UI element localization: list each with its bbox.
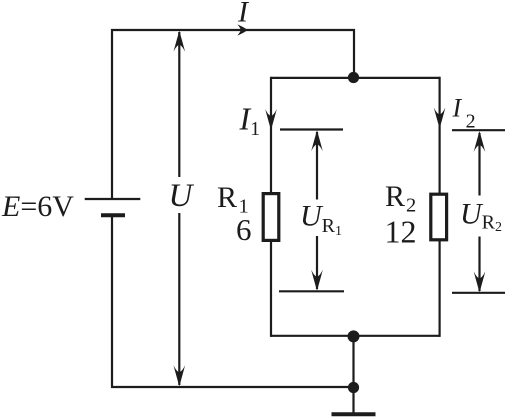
svg-text:R2: R2 xyxy=(385,180,416,217)
wire right branch upper xyxy=(439,77,441,193)
wire node B to node C xyxy=(352,336,354,388)
arrowhead I1 down xyxy=(265,109,277,130)
arrow UR1 shaft xyxy=(316,132,318,289)
wire top loop: left riser, top wire, drop to node A xyxy=(112,30,354,199)
arrow U shaft upper xyxy=(178,32,180,177)
tick line UR1 top xyxy=(280,128,343,130)
battery E bottom plate (short thick) xyxy=(101,213,125,217)
wire right branch lower xyxy=(439,241,441,337)
wire parallel-section bottom rail xyxy=(271,335,440,337)
tick line UR2 bottom xyxy=(452,292,505,294)
wire left branch lower xyxy=(270,242,272,337)
arrowhead UR1 up xyxy=(311,130,323,151)
arrowhead current I (rightward on top wire) xyxy=(237,24,248,35)
node C junction dot xyxy=(348,382,359,393)
arrowhead UR2 down xyxy=(474,271,486,292)
svg-text:I: I xyxy=(237,0,250,29)
svg-text:UR1: UR1 xyxy=(300,200,342,240)
arrowhead UR1 down xyxy=(311,270,323,291)
wire left branch upper xyxy=(270,77,272,193)
resistor R1 body xyxy=(263,194,279,241)
arrowhead UR2 up xyxy=(474,131,486,152)
svg-text:UR2: UR2 xyxy=(460,198,502,236)
battery E top plate (long) xyxy=(85,198,141,200)
svg-text:6: 6 xyxy=(236,212,252,247)
ground bar xyxy=(332,412,376,416)
arrowhead U down xyxy=(174,365,186,386)
svg-text:I2: I2 xyxy=(452,94,476,133)
arrow UR2 shaft xyxy=(478,133,480,291)
svg-text:U: U xyxy=(169,178,195,214)
arrowhead I2 down xyxy=(434,108,446,129)
node A junction dot xyxy=(348,72,359,83)
ground stem xyxy=(352,388,354,413)
tick line UR2 top xyxy=(452,129,505,131)
wire bottom left loop: battery minus down, bottom wire to node C xyxy=(112,216,350,387)
svg-text:E=6V: E=6V xyxy=(1,190,74,223)
wire parallel-section top rail xyxy=(271,77,440,79)
arrowhead U up xyxy=(174,31,186,52)
resistor R2 body xyxy=(431,194,447,240)
arrow U shaft lower xyxy=(178,213,180,385)
tick line UR1 bottom xyxy=(279,290,344,292)
svg-text:I1: I1 xyxy=(239,101,261,141)
node B junction dot xyxy=(348,330,360,342)
svg-text:12: 12 xyxy=(385,214,417,250)
